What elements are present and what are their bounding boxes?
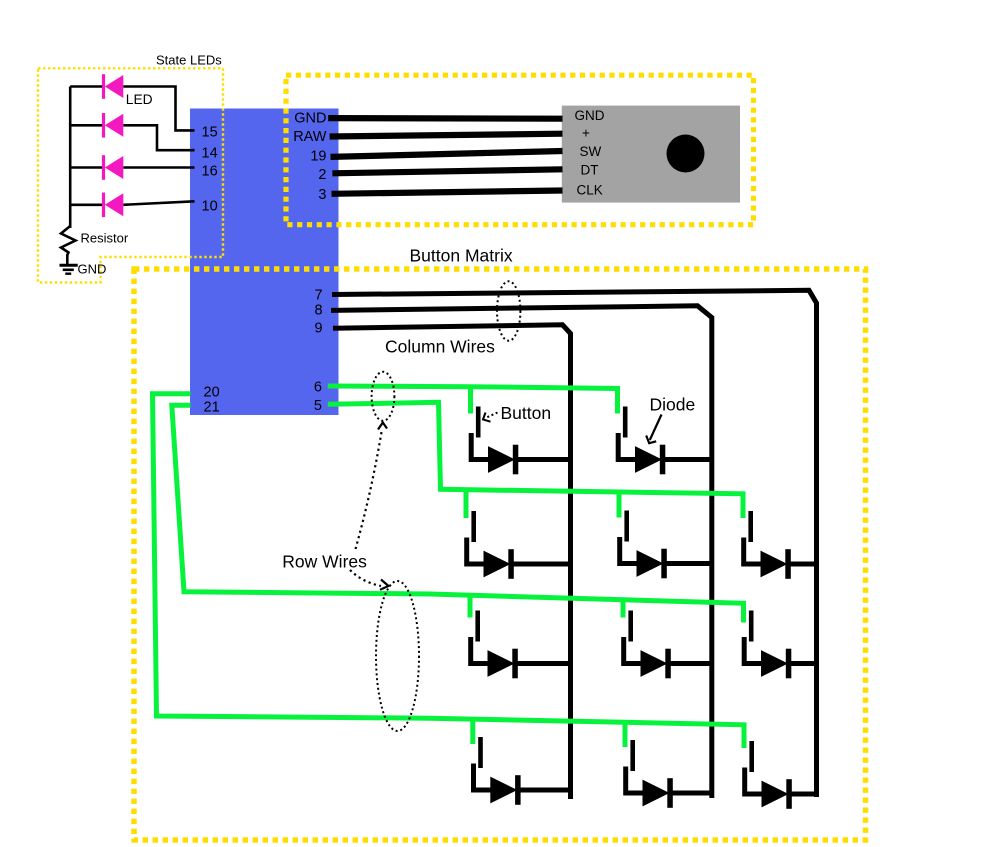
diode D5 (488, 445, 571, 475)
button S10 (626, 740, 643, 793)
svg-text:+: + (582, 126, 590, 141)
button S8 (744, 611, 761, 664)
svg-text:3: 3 (318, 187, 326, 203)
button S11 (745, 741, 762, 794)
wire row stub cell 5 (741, 494, 746, 518)
diode D9 (761, 549, 818, 579)
svg-text:GND: GND (575, 108, 605, 123)
svg-text:State LEDs: State LEDs (156, 53, 222, 68)
svg-text:8: 8 (315, 303, 323, 319)
wire LED1 anode to pin 15 (123, 87, 194, 131)
rotary encoder enclosure (286, 75, 754, 225)
svg-text:14: 14 (202, 146, 218, 162)
svg-text:7: 7 (315, 288, 323, 304)
svg-text:15: 15 (202, 125, 218, 141)
button S2 (618, 407, 635, 460)
svg-text:Button: Button (501, 403, 552, 423)
button S9 (474, 737, 491, 790)
wire row stub cell 1 (468, 387, 473, 414)
wire LED3 anode to pin 16 (123, 166, 194, 169)
wire LED3 cathode (70, 166, 102, 169)
svg-text:6: 6 (314, 379, 322, 395)
svg-text:20: 20 (204, 384, 220, 400)
button S7 (624, 611, 641, 664)
wire MCU to encoder GND (328, 115, 562, 122)
svg-text:Button Matrix: Button Matrix (410, 246, 513, 266)
arrow to diode (650, 415, 662, 441)
diode D7 (484, 549, 571, 579)
row wire 1 from pin 6 (328, 386, 618, 412)
wire MCU to encoder + (330, 134, 563, 137)
column wires highlight ellipse (497, 281, 520, 340)
svg-text:RAW: RAW (293, 129, 327, 145)
button S5 (744, 511, 761, 564)
svg-text:DT: DT (581, 163, 599, 178)
resistor R1 (61, 226, 76, 265)
wire row stub cell 4 (617, 492, 622, 518)
svg-text:GND: GND (78, 262, 107, 277)
button S6 (471, 611, 488, 664)
button S4 (620, 511, 637, 564)
LED D2 (102, 113, 123, 138)
row wire 3 from pin 21 (172, 405, 744, 622)
wire column 2 from pin 8 (331, 306, 712, 798)
svg-text:Resistor: Resistor (81, 231, 129, 246)
LED D3 (102, 155, 123, 180)
wire row stub cell 9 (470, 721, 475, 744)
svg-text:19: 19 (310, 149, 326, 165)
diode D14 (643, 778, 713, 808)
dotted arrow Row Wires to upper ellipse (356, 429, 383, 549)
svg-text:21: 21 (204, 399, 220, 415)
arrow to button (487, 413, 498, 418)
row wires highlight ellipse lower (376, 581, 419, 731)
svg-text:16: 16 (202, 164, 218, 180)
wire column 3 from pin 7 (332, 290, 817, 797)
button S3 (467, 511, 484, 564)
wire row stub cell 6 (468, 598, 473, 618)
wire row stub cell 11 (742, 725, 747, 748)
diode D10 (488, 649, 571, 679)
wire row stub cell 7 (621, 601, 626, 618)
wire row stub cell 10 (623, 723, 628, 747)
wire row stub cell 8 (741, 603, 746, 617)
encoder knob (667, 135, 705, 173)
svg-text:10: 10 (202, 199, 218, 215)
LED D1 (102, 74, 123, 99)
row wire 2 from pin 5 (328, 402, 743, 516)
wire LED2 cathode (70, 124, 102, 127)
diode D6 (635, 445, 713, 475)
rotary encoder module (562, 106, 740, 203)
wire MCU to encoder SW (331, 151, 563, 157)
wire column 1 from pin 9 (333, 325, 571, 799)
diode D15 (762, 779, 818, 809)
svg-text:GND: GND (294, 110, 326, 126)
wire LED1 cathode (70, 85, 102, 88)
wire MCU to encoder CLK (332, 191, 563, 194)
svg-text:CLK: CLK (577, 182, 603, 197)
svg-text:Row Wires: Row Wires (282, 552, 367, 572)
svg-text:2: 2 (318, 167, 326, 183)
state LEDs enclosure (38, 68, 223, 282)
svg-text:Column Wires: Column Wires (385, 337, 495, 357)
wire LED4 cathode (70, 204, 102, 207)
svg-text:LED: LED (126, 92, 153, 107)
svg-text:9: 9 (315, 320, 323, 336)
wire row stub cell 2 (615, 389, 620, 414)
button S1 (471, 407, 488, 460)
LED D4 (102, 193, 123, 218)
diode D13 (490, 775, 570, 805)
wire row stub cell 3 (464, 490, 469, 518)
wire LED4 anode to pin 10 (123, 201, 194, 205)
row wires highlight ellipse upper (372, 372, 395, 421)
diode D8 (637, 549, 713, 579)
wire LED2 anode to pin 14 (123, 125, 194, 150)
button matrix enclosure (134, 269, 866, 840)
diode D12 (761, 649, 818, 679)
dotted arrow Row Wires to lower ellipse (350, 570, 381, 586)
ground symbol (60, 265, 78, 273)
diode D11 (641, 649, 713, 679)
svg-text:SW: SW (580, 144, 602, 159)
row wire 4 from pin 20 (153, 394, 745, 748)
wire LED bus (69, 87, 72, 229)
svg-text:Diode: Diode (650, 395, 696, 415)
wire MCU to encoder DT (332, 169, 562, 173)
microcontroller U1 (190, 109, 339, 416)
svg-text:5: 5 (314, 398, 322, 414)
